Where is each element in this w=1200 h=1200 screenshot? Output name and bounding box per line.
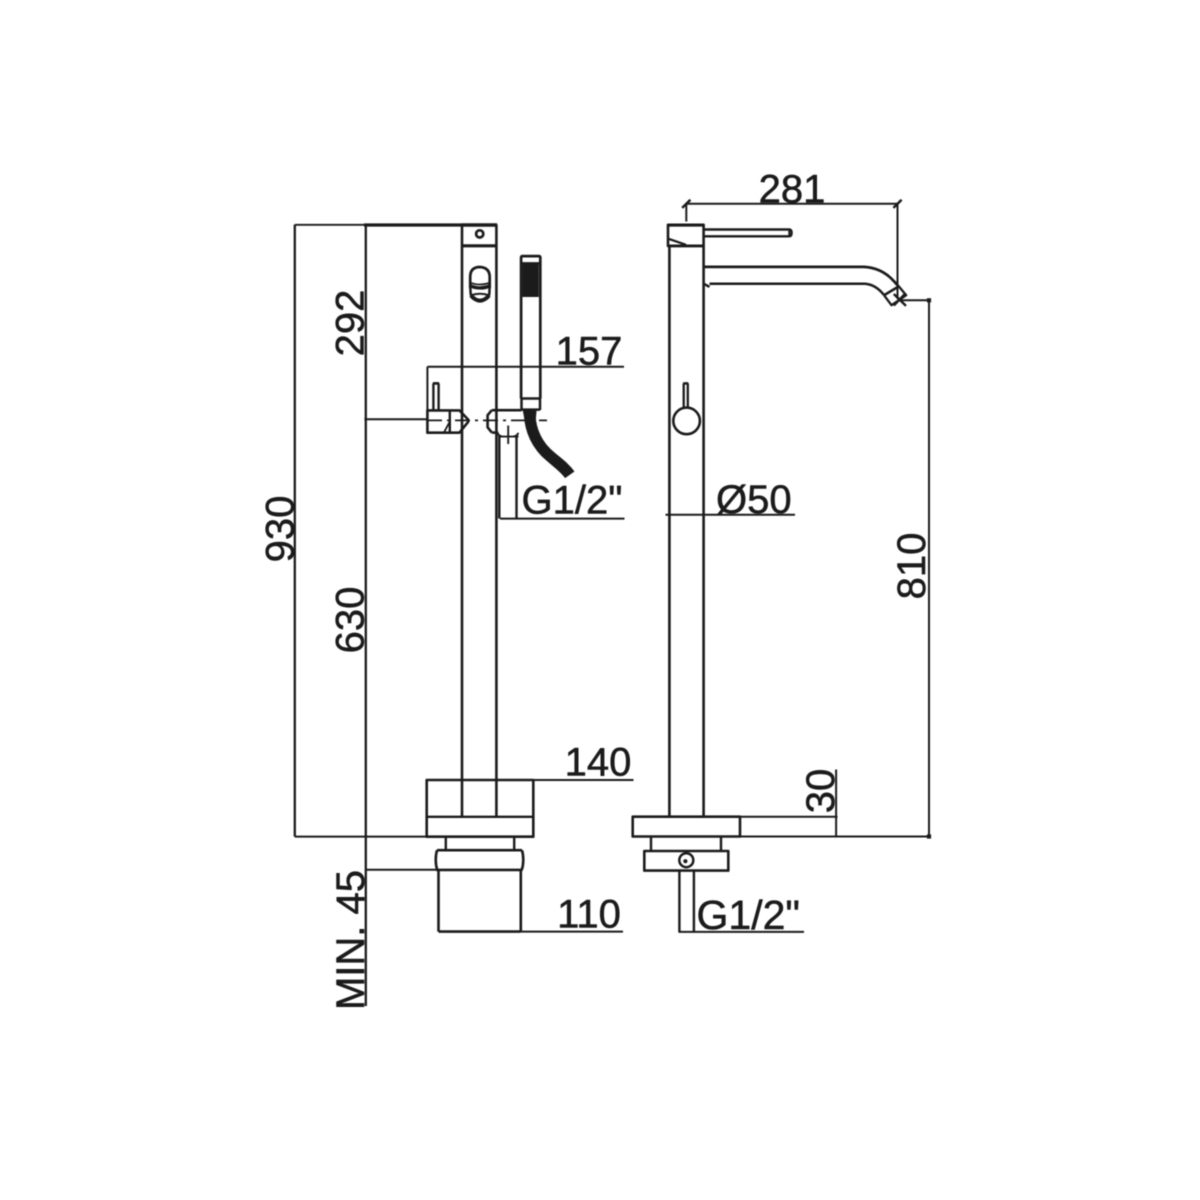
dimension leader G1/2 right [679,931,804,933]
extension line 281 left [685,204,687,222]
base flange inner line [427,816,534,818]
plate top extension for 30 dim [740,816,838,818]
hand shower nut line lower [522,408,541,411]
inlet ring [679,853,693,867]
slider lower sides [470,288,489,296]
left column right edge [495,225,498,817]
dimension leader 157 [427,366,624,368]
diverter knob [673,408,700,435]
spout outlet face [884,286,899,295]
extension from 157 leader down to valve [426,367,428,411]
svg-text:30: 30 [799,769,843,814]
svg-text:110: 110 [557,893,621,937]
slider heavy bottom bowl [471,295,489,300]
extension line at valve centre (292/630 boundary) [364,418,427,420]
dimension leader G1/2 left [500,518,625,520]
dimension line 30 [835,770,837,837]
cross mark on outlet [499,426,519,445]
hand shower head band line [521,262,540,264]
svg-text:810: 810 [890,533,934,600]
spout bottom line [704,284,884,295]
dimension line 292/630/MIN.45 (second vertical) [365,225,367,1006]
extension line MIN.45 lower tick [366,869,437,871]
svg-text:Ø50: Ø50 [716,478,792,522]
shower holder left profile [488,410,492,432]
right column right edge [702,246,705,817]
svg-text:630: 630 [329,587,373,654]
screw hole in bracket [476,230,483,237]
svg-text:140: 140 [565,741,632,785]
under-floor plate right view [644,851,728,871]
valve body inner vertical [449,410,451,432]
under-floor ring right break edge [522,850,523,870]
tick right of 281 [893,200,901,208]
base plate right view [633,817,740,837]
corner dot 810 bottom [927,834,931,838]
under-floor ring top [437,849,522,852]
inlet ring centre [683,859,687,863]
outlet pipe below holder [499,435,516,519]
slider body on column [470,267,490,288]
under-floor ring bottom [436,869,522,872]
inlet pipe [679,871,694,933]
lever stem [433,383,438,410]
shower holder bottom [492,431,498,434]
valve body inner diagonal [444,421,450,432]
shower hose [530,411,570,475]
base flange outline left view [427,780,534,837]
spout top line [704,267,899,287]
corner dot 810 top [927,298,931,302]
svg-text:930: 930 [259,496,303,563]
svg-text:G1/2": G1/2" [522,479,623,523]
under-floor body bottom [439,930,521,933]
valve body outline [427,410,468,432]
holder bottom collar arcs [498,433,519,437]
dimension line 930 (left vertical) [294,225,296,837]
hand shower black grip [522,263,538,297]
slider bottom closing arc [471,294,489,296]
left column top cap line [462,223,497,226]
dimension leader 140 [533,779,633,781]
hand shower head outline [521,256,540,398]
under-floor neck left view [446,837,514,851]
right column cap diagonal [668,239,686,245]
dimension leader diameter 50 [666,514,796,516]
tick left of 281 [682,200,690,208]
dimension line 810 [928,300,930,836]
svg-text:MIN. 45: MIN. 45 [329,870,373,1010]
hand shower nut sides [522,399,541,411]
shower holder top [492,409,522,412]
extension line 281 right [897,204,899,299]
svg-text:292: 292 [329,290,373,357]
floor line right view [740,836,930,838]
slider upper band thin arc [470,283,490,285]
lever rod [704,230,792,237]
outlet tick marks [894,293,906,306]
under-floor neck right view [651,837,721,852]
leader from outlet to 810 line [901,299,930,301]
slider heavy mid band [470,286,490,288]
diverter knob stem [684,383,688,407]
hand shower nut line upper [521,397,540,400]
diverter knob stem cap [683,382,688,385]
svg-text:G1/2": G1/2" [697,892,800,938]
extension line top (930/292 top reference) [295,224,365,226]
hose cone top [523,411,537,422]
lever rod end face [788,230,790,237]
svg-text:281: 281 [759,168,826,212]
centre line dash-dot [427,419,547,421]
left column left edge [461,225,464,817]
under-floor ring left break edge [436,850,437,870]
right column cap [668,225,704,246]
dimension leader 110 [521,931,623,933]
floor line left view [295,836,427,838]
under-floor body [439,870,521,932]
dimension line 281 [686,203,897,205]
top bracket bottom line [462,244,497,247]
svg-text:157: 157 [556,330,623,374]
spout outlet diamond [884,286,906,305]
lever stem cap [433,382,439,385]
right column left edge [668,246,671,817]
